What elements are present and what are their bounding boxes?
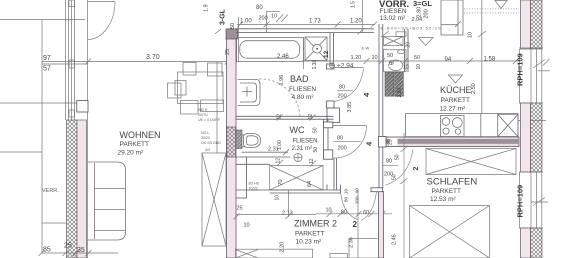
BAD top wall: [236, 29, 374, 33]
dashed door swing: [259, 79, 300, 117]
dining table: [168, 63, 224, 115]
svg-text:50: 50: [230, 23, 236, 29]
svg-text:12: 12: [323, 50, 330, 58]
right exterior wall mid: [521, 103, 531, 172]
bed: [410, 206, 490, 258]
svg-text:PARKETT: PARKETT: [432, 188, 462, 195]
WC door jamb lower: [324, 150, 333, 159]
right exterior wall lower: [521, 228, 531, 258]
svg-text:1.00: 1.00: [277, 140, 283, 150]
washbasin BAD: [238, 80, 260, 106]
bottom dimension line: [39, 250, 119, 256]
svg-text:94: 94: [445, 57, 452, 63]
sofa: [88, 162, 126, 240]
WC top wall: [236, 116, 334, 119]
svg-text:1.73: 1.73: [309, 19, 321, 25]
svg-text:20: 20: [406, 42, 412, 48]
svg-text:SCHLAFEN: SCHLAFEN: [427, 177, 478, 188]
svg-text:50: 50: [395, 154, 401, 160]
wardrobe X: [426, 149, 516, 175]
svg-text:57: 57: [43, 66, 51, 73]
balcony line 3: [42, 222, 66, 224]
svg-text:BAD: BAD: [290, 74, 309, 84]
svg-text:80: 80: [256, 5, 263, 11]
wall stub right of door: [371, 188, 383, 192]
wall end post: [77, 101, 88, 113]
extension line 1.5: [361, 0, 363, 33]
svg-text:12.27 m²: 12.27 m²: [440, 106, 466, 113]
bathtub: [237, 38, 304, 62]
brick pier WC: [236, 130, 242, 149]
chair top-left: [183, 63, 196, 76]
chair top-right: [208, 63, 223, 76]
svg-text:4.80 m²: 4.80 m²: [292, 94, 315, 101]
svg-text:ZIMMER 2: ZIMMER 2: [294, 219, 337, 229]
svg-text:2.80: 2.80: [417, 7, 423, 18]
shaft X-box in WOHNEN: [202, 62, 226, 246]
extension line vertical: [403, 133, 405, 258]
svg-text:200: 200: [259, 16, 268, 22]
window schlafen: [519, 172, 545, 228]
extension line: [481, 0, 483, 114]
svg-text:FLIESEN: FLIESEN: [380, 8, 407, 15]
svg-text:FLIESEN: FLIESEN: [293, 139, 318, 145]
svg-text:10: 10: [344, 188, 349, 194]
svg-text:1.20: 1.20: [351, 55, 362, 61]
svg-text:8D H6: 8D H6: [249, 182, 259, 186]
svg-text:97: 97: [43, 55, 51, 62]
tub edge extension: [302, 38, 304, 70]
kitchen counter: [406, 114, 518, 137]
svg-text:RPH=109: RPH=109: [516, 185, 525, 218]
svg-text:200: 200: [338, 94, 347, 100]
door triangle: [419, 38, 434, 46]
svg-text:10: 10: [416, 64, 422, 70]
shower: [305, 37, 327, 61]
right exterior wall upper: [521, 0, 531, 49]
svg-text:200: 200: [338, 146, 347, 152]
balcony edge line: [41, 19, 43, 253]
KUECHE-SCHLAFEN wall: [379, 137, 519, 147]
svg-text:WB H: WB H: [198, 108, 208, 112]
WC door arc: [334, 126, 367, 159]
WC door jamb upper: [324, 122, 333, 128]
left exterior wall insulation: [67, 120, 78, 258]
svg-text:2.46: 2.46: [277, 54, 289, 60]
svg-text:PARKETT: PARKETT: [441, 97, 471, 104]
wall 25 label: [390, 138, 398, 146]
svg-text:1.20: 1.20: [350, 19, 362, 25]
center wall: [227, 29, 237, 258]
balcony mid line: [0, 102, 77, 104]
interior face line left: [87, 0, 89, 258]
door jamb block: [327, 64, 335, 69]
BAD door arc: [335, 69, 364, 102]
glazing band left: [65, 0, 67, 120]
svg-text:50: 50: [392, 174, 398, 180]
dim extension below cupboard: [234, 190, 317, 220]
horizontal dim line mid: [302, 58, 520, 64]
ZIMMER2 furniture bottom: [236, 239, 379, 258]
svg-text:...: ...: [504, 130, 508, 136]
WC right wall: [324, 119, 337, 190]
ZIMMER2-SCHLAFEN wall: [379, 192, 384, 258]
washing machine: [384, 32, 407, 46]
svg-text:13.02 m²: 13.02 m²: [380, 15, 406, 22]
WC bottom wall: [236, 157, 290, 198]
svg-text:60: 60: [341, 210, 347, 216]
svg-text:50: 50: [414, 55, 420, 61]
svg-text:WC: WC: [290, 125, 305, 135]
svg-text:10: 10: [275, 195, 281, 201]
svg-text:3.70: 3.70: [146, 54, 160, 61]
svg-text:2: 2: [413, 167, 420, 171]
sink: [498, 114, 546, 136]
svg-text:2.36: 2.36: [349, 237, 355, 248]
svg-text:VERR.: VERR.: [42, 188, 59, 194]
svg-text:50: 50: [313, 147, 319, 153]
chair bottom-right: [201, 100, 224, 112]
svg-text:35: 35: [77, 247, 85, 254]
svg-text:25: 25: [64, 243, 72, 250]
svg-text:2.20: 2.20: [397, 88, 403, 98]
svg-text:80: 80: [339, 85, 345, 91]
BAD-VORR wall upper: [330, 33, 334, 64]
svg-text:25: 25: [388, 139, 394, 145]
svg-text:64: 64: [307, 181, 313, 187]
svg-text:70: 70: [278, 179, 284, 185]
floor drain: [294, 154, 302, 162]
window kitchen: [519, 48, 550, 103]
svg-text:3-GL: 3-GL: [220, 8, 227, 25]
svg-text:PARKETT: PARKETT: [295, 231, 325, 238]
entrance door frame: [441, 0, 463, 35]
svg-text:10: 10: [244, 223, 250, 229]
svg-text:50: 50: [313, 127, 319, 133]
svg-text:10: 10: [372, 55, 378, 61]
center wall top cap: [226, 29, 238, 39]
svg-text:12: 12: [309, 158, 315, 164]
triangle above label: [449, 75, 463, 83]
svg-text:200: 200: [355, 196, 360, 204]
svg-text:10: 10: [468, 32, 474, 38]
svg-text:12: 12: [277, 114, 283, 120]
terrace door header: [88, 1, 116, 3]
balcony top line: [0, 19, 85, 21]
svg-text:90: 90: [355, 187, 360, 193]
svg-text:2: 2: [353, 220, 358, 229]
svg-text:10: 10: [326, 208, 332, 214]
svg-text:PARKETT: PARKETT: [120, 141, 150, 148]
svg-text:+2.94: +2.94: [337, 63, 354, 70]
svg-text:30/20: 30/20: [201, 136, 210, 140]
cupboard X-box hallway: [270, 166, 323, 190]
svg-text:2.31 m²: 2.31 m²: [292, 146, 312, 152]
terrace door swing arc: [88, 2, 116, 40]
stove: [440, 115, 464, 136]
VORR-KUECHE wall: [379, 24, 408, 188]
outer dim mark right: [531, 201, 548, 203]
svg-text:2.46: 2.46: [392, 234, 398, 245]
svg-text:80: 80: [344, 196, 349, 202]
svg-text:1.96: 1.96: [279, 75, 285, 86]
chair bottom-left: [181, 101, 199, 115]
svg-text:1.58: 1.58: [484, 57, 496, 63]
door jamb block low: [327, 101, 335, 108]
left exterior wall: [77, 120, 87, 258]
svg-text:WOHNEN: WOHNEN: [120, 130, 161, 140]
svg-text:80: 80: [337, 136, 343, 142]
svg-text:29.20 m²: 29.20 m²: [118, 150, 144, 157]
svg-text:1.5: 1.5: [351, 1, 357, 8]
svg-text:NO L: NO L: [201, 131, 209, 135]
upper cabinet dotted lines: [464, 8, 519, 10]
svg-text:60: 60: [363, 210, 369, 216]
svg-text:2.20: 2.20: [280, 242, 286, 253]
chair left: [168, 83, 182, 98]
level mark +2.94: [329, 63, 334, 68]
duct shaft dark: [385, 72, 394, 96]
svg-text:4/3: 4/3: [205, 148, 210, 152]
svg-text:E-W: E-W: [362, 46, 370, 51]
svg-text:10.23 m²: 10.23 m²: [296, 239, 322, 246]
svg-text:20/TU: 20/TU: [198, 113, 208, 117]
center wall concrete section: [227, 127, 236, 157]
svg-text:10: 10: [271, 14, 277, 20]
top dimension line: [237, 11, 377, 62]
svg-text:FLIESEN: FLIESEN: [289, 86, 316, 93]
svg-text:UK = 0 DURF: UK = 0 DURF: [198, 118, 221, 122]
svg-text:12.53 m²: 12.53 m²: [430, 196, 456, 203]
BAD door leaf: [334, 67, 364, 69]
entrance triangle: [495, 1, 507, 9]
balcony line 2: [0, 151, 42, 153]
WC door leaf: [333, 125, 367, 127]
svg-text:RPH=109: RPH=109: [516, 53, 525, 86]
svg-text:10: 10: [403, 64, 409, 70]
toilet: [241, 134, 289, 156]
svg-text:2.50: 2.50: [471, 83, 477, 94]
svg-text:1.00: 1.00: [240, 19, 252, 25]
ZIMMER2 top boundary: [236, 185, 341, 194]
SCHLAFEN door arc: [386, 149, 413, 185]
wall corner block: [327, 108, 340, 123]
svg-text:50: 50: [387, 53, 393, 59]
svg-text:200: 200: [424, 9, 430, 18]
svg-text:85: 85: [43, 247, 51, 254]
svg-text:25: 25: [237, 206, 243, 212]
svg-text:KÜCHE: KÜCHE: [440, 85, 472, 95]
glazing mullion marks: [69, 0, 75, 7]
svg-text:25: 25: [225, 49, 231, 55]
dimension line 3.70: [42, 29, 236, 65]
ZIMMER2 door dim line: [316, 190, 392, 258]
svg-text:OK SS OBD: OK SS OBD: [201, 141, 221, 145]
hand basin nook: [384, 50, 407, 72]
svg-text:1.9: 1.9: [204, 4, 210, 12]
svg-text:3.85: 3.85: [347, 102, 353, 113]
svg-text:80: 80: [386, 159, 392, 165]
ZIMMER2 double door arcs: [341, 193, 358, 220]
